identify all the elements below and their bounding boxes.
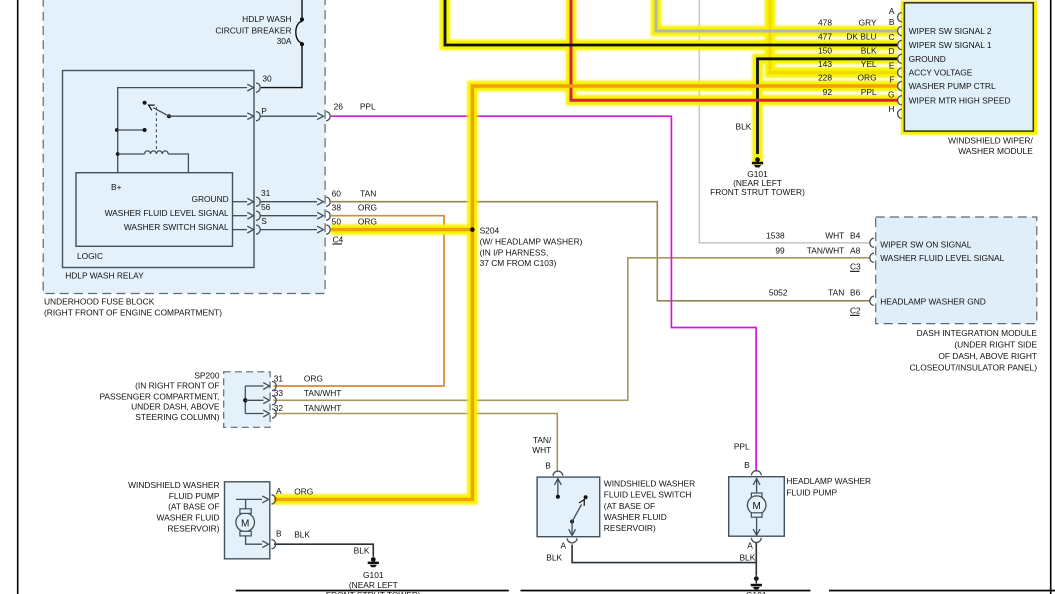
svg-text:G: G: [888, 90, 895, 100]
svg-text:GROUND: GROUND: [191, 194, 228, 204]
svg-text:D: D: [888, 46, 894, 56]
svg-text:B: B: [276, 529, 282, 539]
module pin B: [889, 17, 902, 36]
svg-text:228: 228: [818, 73, 832, 83]
svg-text:FRONT STRUT TOWER): FRONT STRUT TOWER): [326, 590, 421, 594]
svg-text:PASSENGER COMPARTMENT,: PASSENGER COMPARTMENT,: [99, 391, 219, 401]
module pin G: [888, 90, 902, 105]
label: wire 478 GRY: [818, 18, 877, 28]
DIM pin A8: [850, 245, 1005, 263]
splice S204: [470, 225, 583, 268]
wire: 99 TAN/WHT SP200 to DIM pin A8: [274, 258, 870, 401]
S1 pin B: [532, 435, 563, 476]
svg-text:FLUID LEVEL SWITCH: FLUID LEVEL SWITCH: [604, 490, 692, 500]
relay pin 31 (GROUND): [233, 188, 331, 206]
svg-text:SP200: SP200: [194, 370, 219, 380]
svg-text:STEERING COLUMN): STEERING COLUMN): [135, 412, 219, 422]
relay pin P: [256, 106, 330, 121]
svg-text:TAN/WHT: TAN/WHT: [304, 388, 342, 398]
svg-text:WASHER FLUID LEVEL SIGNAL: WASHER FLUID LEVEL SIGNAL: [105, 208, 229, 218]
svg-text:WASHER MODULE: WASHER MODULE: [958, 146, 1033, 156]
wire core: 478 GRY: [656, 0, 898, 31]
svg-text:PPL: PPL: [734, 441, 750, 451]
svg-text:38: 38: [332, 202, 342, 212]
relay pin P internal wire: [169, 113, 254, 120]
svg-text:31: 31: [274, 373, 284, 383]
svg-text:31: 31: [261, 188, 271, 198]
label: wire 1538 WHT: [766, 231, 844, 241]
label: wire 477 DK BLU: [818, 32, 877, 42]
M1 motor symbol: [236, 509, 255, 536]
underhood fuse block (dashed enclosure): [43, 0, 325, 318]
relay mechanical link (dashed): [155, 107, 157, 150]
svg-text:478: 478: [818, 18, 832, 28]
svg-text:ORG: ORG: [294, 487, 313, 497]
M2 motor symbol: [747, 478, 766, 535]
svg-text:BLK: BLK: [739, 553, 755, 563]
relay pin 56 (WASHER FLUID LEVEL SIGNAL): [233, 202, 331, 220]
svg-text:B6: B6: [850, 288, 861, 298]
svg-text:5052: 5052: [769, 288, 788, 298]
wire highlight glow: circuit 478 GRY: [656, 0, 898, 31]
relay internal B+ rail and pin 30 wire: [118, 84, 254, 173]
SP200 pin 33: [245, 388, 341, 405]
label: wire 5052 TAN: [769, 288, 844, 298]
svg-text:1538: 1538: [766, 231, 785, 241]
svg-text:A: A: [276, 486, 282, 496]
circuit breaker: HDLP WASH CIRCUIT BREAKER 30A: [215, 0, 304, 88]
svg-text:50: 50: [332, 216, 342, 226]
svg-text:ORG: ORG: [304, 373, 323, 383]
svg-text:TAN/WHT: TAN/WHT: [807, 245, 845, 255]
module pin C: [888, 32, 901, 50]
wire: TAN/WHT SP200 to washer fluid level switch pin B: [274, 414, 558, 471]
svg-text:99: 99: [775, 245, 785, 255]
svg-text:ORG: ORG: [358, 216, 377, 226]
svg-text:M: M: [241, 518, 249, 529]
svg-text:A: A: [747, 540, 753, 550]
svg-text:WINDSHIELD WIPER/: WINDSHIELD WIPER/: [948, 136, 1033, 146]
SP200 pin 31: [245, 373, 323, 390]
svg-text:HDLP WASH: HDLP WASH: [242, 14, 291, 24]
svg-text:LOGIC: LOGIC: [77, 251, 103, 261]
svg-text:WINDSHIELD WASHER: WINDSHIELD WASHER: [604, 479, 695, 489]
svg-text:WINDSHIELD WASHER: WINDSHIELD WASHER: [128, 480, 219, 490]
svg-text:WIPER SW ON SIGNAL: WIPER SW ON SIGNAL: [880, 239, 972, 249]
svg-text:A: A: [889, 6, 895, 16]
module U2: DASH INTEGRATION MODULE (dashed box): [876, 217, 1038, 372]
label: wire 92 PPL: [823, 87, 877, 97]
svg-text:HDLP WASH RELAY: HDLP WASH RELAY: [65, 270, 144, 280]
wire: BLK headlamp pump pin A to G101: [755, 543, 757, 576]
svg-text:B: B: [744, 460, 750, 470]
svg-text:C2: C2: [850, 306, 861, 316]
svg-text:WIPER SW SIGNAL 1: WIPER SW SIGNAL 1: [909, 40, 992, 50]
svg-text:WASHER FLUID LEVEL SIGNAL: WASHER FLUID LEVEL SIGNAL: [880, 253, 1004, 263]
svg-text:BLK: BLK: [861, 45, 877, 55]
svg-text:56: 56: [261, 202, 271, 212]
S1 pin A: [546, 538, 577, 562]
svg-text:GROUND: GROUND: [909, 54, 946, 64]
svg-text:A: A: [561, 540, 567, 550]
svg-text:B: B: [545, 460, 551, 470]
DIM connector C3 label: [850, 262, 861, 272]
svg-text:TAN: TAN: [360, 188, 376, 198]
wire highlight glow: circuit 477 DK BLU: [445, 0, 898, 45]
label: wire 38 ORG: [332, 202, 377, 212]
module pin D: [888, 46, 901, 63]
svg-text:(W/ HEADLAMP WASHER): (W/ HEADLAMP WASHER): [480, 236, 583, 246]
wire highlight glow: circuit 92 PPL: [571, 0, 898, 100]
wire: 60 TAN / 5052 TAN relay ground to DIM pin B6: [331, 202, 870, 301]
svg-text:TAN/WHT: TAN/WHT: [304, 403, 342, 413]
DIM connector C2 label: [850, 306, 861, 316]
svg-text:TAN/: TAN/: [533, 435, 552, 445]
svg-text:CIRCUIT BREAKER: CIRCUIT BREAKER: [215, 26, 291, 36]
svg-text:F: F: [889, 75, 894, 85]
page border bottom segments: [236, 590, 1055, 592]
wire core: 228 ORG / 50 ORG: [274, 86, 898, 499]
svg-text:WASHER FLUID: WASHER FLUID: [604, 512, 667, 522]
svg-text:150: 150: [818, 45, 832, 55]
svg-text:WASHER PUMP CTRL: WASHER PUMP CTRL: [909, 81, 996, 91]
wire: 26 PPL relay pin P to headlamp washer fluid pump pin B: [331, 116, 756, 471]
svg-text:C: C: [888, 32, 894, 42]
svg-text:C4: C4: [333, 234, 344, 244]
svg-text:WIPER MTR HIGH SPEED: WIPER MTR HIGH SPEED: [909, 96, 1011, 106]
connector C4 label: [333, 234, 344, 244]
label: wire 50 ORG: [332, 216, 377, 226]
label: wire 150 BLK: [818, 45, 877, 55]
label: wire 143 YEL: [818, 59, 877, 69]
svg-text:P: P: [261, 106, 267, 116]
svg-text:WHT: WHT: [825, 231, 844, 241]
M1 pin B: [246, 529, 311, 549]
module pin E: [889, 61, 902, 78]
svg-text:C3: C3: [850, 262, 861, 272]
svg-text:32: 32: [274, 403, 284, 413]
svg-text:37 CM FROM C103): 37 CM FROM C103): [480, 258, 557, 268]
svg-text:FRONT STRUT TOWER): FRONT STRUT TOWER): [710, 187, 805, 197]
relay switch contact: [115, 101, 171, 132]
ground G101 (bottom), headlamp pump + level switch: [746, 576, 767, 594]
svg-text:BLK: BLK: [736, 122, 752, 132]
svg-text:WASHER SWITCH SIGNAL: WASHER SWITCH SIGNAL: [124, 222, 229, 232]
page border right: [1050, 0, 1052, 594]
svg-text:(IN I/P HARNESS,: (IN I/P HARNESS,: [480, 247, 549, 257]
svg-text:WIPER SW SIGNAL 2: WIPER SW SIGNAL 2: [909, 26, 992, 36]
S1 switch contacts: [555, 478, 588, 536]
svg-text:HEADLAMP WASHER GND: HEADLAMP WASHER GND: [880, 296, 986, 306]
DIM pin B4: [850, 231, 972, 250]
svg-text:26: 26: [334, 102, 344, 112]
motor M2: HEADLAMP WASHER FLUID PUMP: [729, 476, 871, 536]
wire: BLK washer pump pin B to G101: [274, 544, 373, 557]
svg-text:A8: A8: [850, 245, 861, 255]
label: wire 60 TAN: [332, 188, 377, 198]
svg-text:BLK: BLK: [294, 529, 310, 539]
svg-text:B4: B4: [850, 231, 861, 241]
wire core: 477 DK BLU: [445, 0, 898, 45]
svg-text:DK BLU: DK BLU: [846, 32, 876, 42]
svg-text:CLOSEOUT/INSULATOR PANEL): CLOSEOUT/INSULATOR PANEL): [909, 362, 1037, 372]
svg-text:(RIGHT FRONT OF ENGINE COMPART: (RIGHT FRONT OF ENGINE COMPARTMENT): [44, 308, 222, 318]
svg-text:143: 143: [818, 59, 832, 69]
svg-text:DASH INTEGRATION MODULE: DASH INTEGRATION MODULE: [917, 328, 1038, 338]
svg-text:(UNDER RIGHT SIDE: (UNDER RIGHT SIDE: [954, 340, 1037, 350]
svg-text:TAN: TAN: [828, 288, 844, 298]
svg-text:(IN RIGHT FRONT OF: (IN RIGHT FRONT OF: [135, 381, 219, 391]
relay K: HDLP WASH RELAY box: [63, 71, 255, 281]
svg-text:92: 92: [823, 87, 833, 97]
wire core: 92 PPL: [571, 0, 898, 100]
svg-text:RESERVOIR): RESERVOIR): [168, 523, 220, 533]
svg-text:30: 30: [262, 74, 272, 84]
M1 pin A: [236, 486, 313, 509]
svg-text:(AT BASE OF: (AT BASE OF: [604, 501, 655, 511]
svg-text:OF DASH, ABOVE RIGHT: OF DASH, ABOVE RIGHT: [938, 351, 1037, 361]
svg-text:UNDER DASH, ABOVE: UNDER DASH, ABOVE: [131, 401, 220, 411]
wire core: 150 BLK: [758, 59, 899, 154]
svg-text:(NEAR LEFT: (NEAR LEFT: [349, 580, 398, 590]
svg-text:FLUID PUMP: FLUID PUMP: [786, 488, 837, 498]
svg-text:YEL: YEL: [861, 59, 877, 69]
SP200 internal bus and junction: [243, 386, 247, 414]
svg-text:H: H: [888, 104, 894, 114]
svg-text:60: 60: [332, 188, 342, 198]
svg-text:PPL: PPL: [360, 102, 376, 112]
splice pack SP200 (dashed box): [99, 370, 270, 427]
page border left: [17, 0, 19, 594]
DIM pin B6: [850, 288, 986, 307]
relay coil: [116, 151, 189, 173]
wire: BLK level switch pin A to G101 junction: [572, 545, 756, 563]
svg-text:G101: G101: [363, 570, 384, 580]
svg-text:UNDERHOOD FUSE BLOCK: UNDERHOOD FUSE BLOCK: [44, 297, 155, 307]
module pin A: [889, 6, 902, 22]
svg-text:BLK: BLK: [546, 553, 562, 563]
svg-text:30A: 30A: [277, 36, 292, 46]
SP200 pin 32: [245, 403, 341, 418]
svg-text:FLUID PUMP: FLUID PUMP: [169, 491, 220, 501]
label: wire 228 ORG: [818, 73, 877, 83]
svg-text:E: E: [889, 61, 895, 71]
wire: 38 ORG relay to SP200 pin 31: [274, 216, 445, 386]
svg-text:PPL: PPL: [861, 87, 877, 97]
svg-text:B+: B+: [111, 182, 122, 192]
svg-text:(AT BASE OF: (AT BASE OF: [168, 502, 219, 512]
svg-text:B: B: [889, 17, 895, 27]
motor M1: WINDSHIELD WASHER FLUID PUMP: [128, 480, 270, 559]
switch S1: WINDSHIELD WASHER FLUID LEVEL SWITCH: [537, 477, 695, 537]
module pin H: [888, 104, 901, 118]
svg-text:G101: G101: [746, 590, 767, 594]
M2 pin B: [734, 441, 761, 475]
svg-text:M: M: [753, 501, 761, 512]
wire highlight glow: circuit 150 BLK to G101: [758, 59, 899, 165]
label: wire 26 PPL: [334, 102, 376, 112]
svg-text:ACCY VOLTAGE: ACCY VOLTAGE: [909, 68, 973, 78]
svg-text:477: 477: [818, 32, 832, 42]
svg-text:HEADLAMP WASHER: HEADLAMP WASHER: [786, 476, 871, 486]
svg-text:S: S: [261, 216, 267, 226]
wire highlight glow: circuit 228 ORG / 50 ORG to washer pump: [274, 86, 898, 499]
module U1: WINDSHIELD WIPER/WASHER MODULE: [901, 1, 1037, 157]
M2 pin A: [739, 538, 761, 563]
svg-text:WHT: WHT: [532, 445, 551, 455]
svg-text:ORG: ORG: [358, 202, 377, 212]
wire highlight glow: circuit 143 YEL: [770, 0, 898, 73]
relay pin S (WASHER SWITCH SIGNAL): [233, 216, 331, 234]
ground G101 (near left front strut tower), wiper module: [710, 122, 805, 198]
svg-text:WASHER FLUID: WASHER FLUID: [157, 513, 220, 523]
svg-text:GRY: GRY: [859, 18, 877, 28]
svg-text:BLK: BLK: [354, 546, 370, 556]
module pin F: [889, 75, 901, 91]
wire core: 143 YEL: [770, 0, 898, 73]
svg-text:S204: S204: [480, 225, 500, 235]
label: wire 99 TAN/WHT: [775, 245, 844, 255]
svg-text:RESERVOIR): RESERVOIR): [604, 523, 656, 533]
relay logic block LOGIC: [76, 173, 233, 261]
svg-text:33: 33: [274, 388, 284, 398]
svg-text:ORG: ORG: [858, 73, 877, 83]
relay pin 30: [256, 74, 272, 93]
ground G101 (near left front strut tower), washer pump: [326, 546, 421, 594]
wire: 1538 WHT from top to DIM pin B4: [699, 0, 869, 243]
